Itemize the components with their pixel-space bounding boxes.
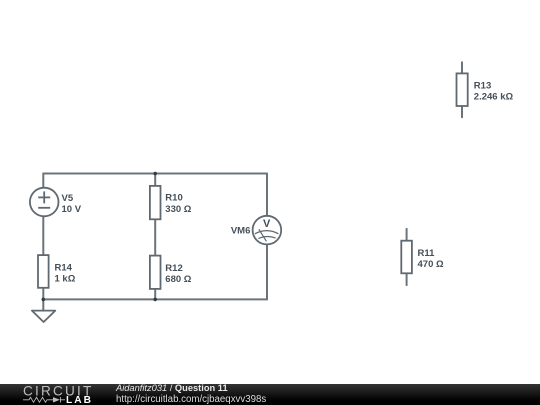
CircuitLab logo	[22, 384, 122, 405]
wire: R11 bottom lead	[406, 273, 408, 285]
wire: R10 bottom to R12 top	[154, 219, 156, 255]
label R14 value	[55, 262, 76, 284]
svg-text:2.246 kΩ: 2.246 kΩ	[474, 92, 514, 103]
resistor R13	[457, 73, 468, 106]
voltmeter VM6	[253, 216, 282, 245]
svg-text:V: V	[263, 218, 271, 230]
svg-text:R10: R10	[165, 193, 182, 204]
svg-text:R14: R14	[55, 262, 73, 273]
svg-text:VM6: VM6	[231, 226, 251, 237]
label R13 value	[474, 81, 514, 103]
label V5 value	[62, 193, 82, 215]
label R10 value	[165, 193, 191, 215]
wire: VM6 bottom lead	[266, 244, 268, 299]
wire: V5 top to top-left corner	[42, 174, 44, 188]
wire: R13 bottom lead	[461, 106, 463, 117]
node C junction bottom rail / R12	[153, 298, 157, 302]
svg-text:R11: R11	[418, 248, 436, 259]
wire: R12 bottom lead	[154, 289, 156, 300]
node A junction top rail / R10	[153, 172, 157, 176]
wire: R10 top lead	[154, 174, 156, 186]
svg-text:LAB: LAB	[66, 395, 93, 405]
svg-text:R12: R12	[165, 263, 182, 274]
svg-text:470 Ω: 470 Ω	[418, 259, 444, 270]
wire: top rail down to VM6	[266, 174, 268, 216]
wire: R11 top lead	[406, 229, 408, 241]
wire: ground stem	[42, 299, 44, 310]
wire: top horizontal rail	[43, 173, 267, 175]
label R11 value	[418, 248, 444, 270]
svg-text:V5: V5	[62, 193, 74, 204]
voltage source V5	[30, 188, 59, 217]
svg-text:10 V: 10 V	[62, 204, 82, 215]
node B junction bottom rail / ground	[42, 298, 46, 302]
footer bar	[0, 384, 540, 405]
resistor R10	[150, 186, 161, 219]
ground	[32, 311, 55, 322]
svg-text:R13: R13	[474, 81, 491, 92]
resistor R11	[401, 241, 412, 274]
svg-text:680 Ω: 680 Ω	[165, 274, 191, 285]
wire: R13 top lead	[461, 62, 463, 73]
wire: V5 bottom to R14 top	[42, 216, 44, 255]
resistor R14	[38, 255, 49, 288]
wire: R14 bottom to bottom rail	[42, 288, 44, 300]
svg-text:1 kΩ: 1 kΩ	[55, 273, 76, 284]
wire: bottom horizontal rail	[43, 298, 267, 300]
svg-text:330 Ω: 330 Ω	[165, 204, 191, 215]
label R12 value	[165, 263, 191, 285]
resistor R12	[150, 256, 161, 289]
